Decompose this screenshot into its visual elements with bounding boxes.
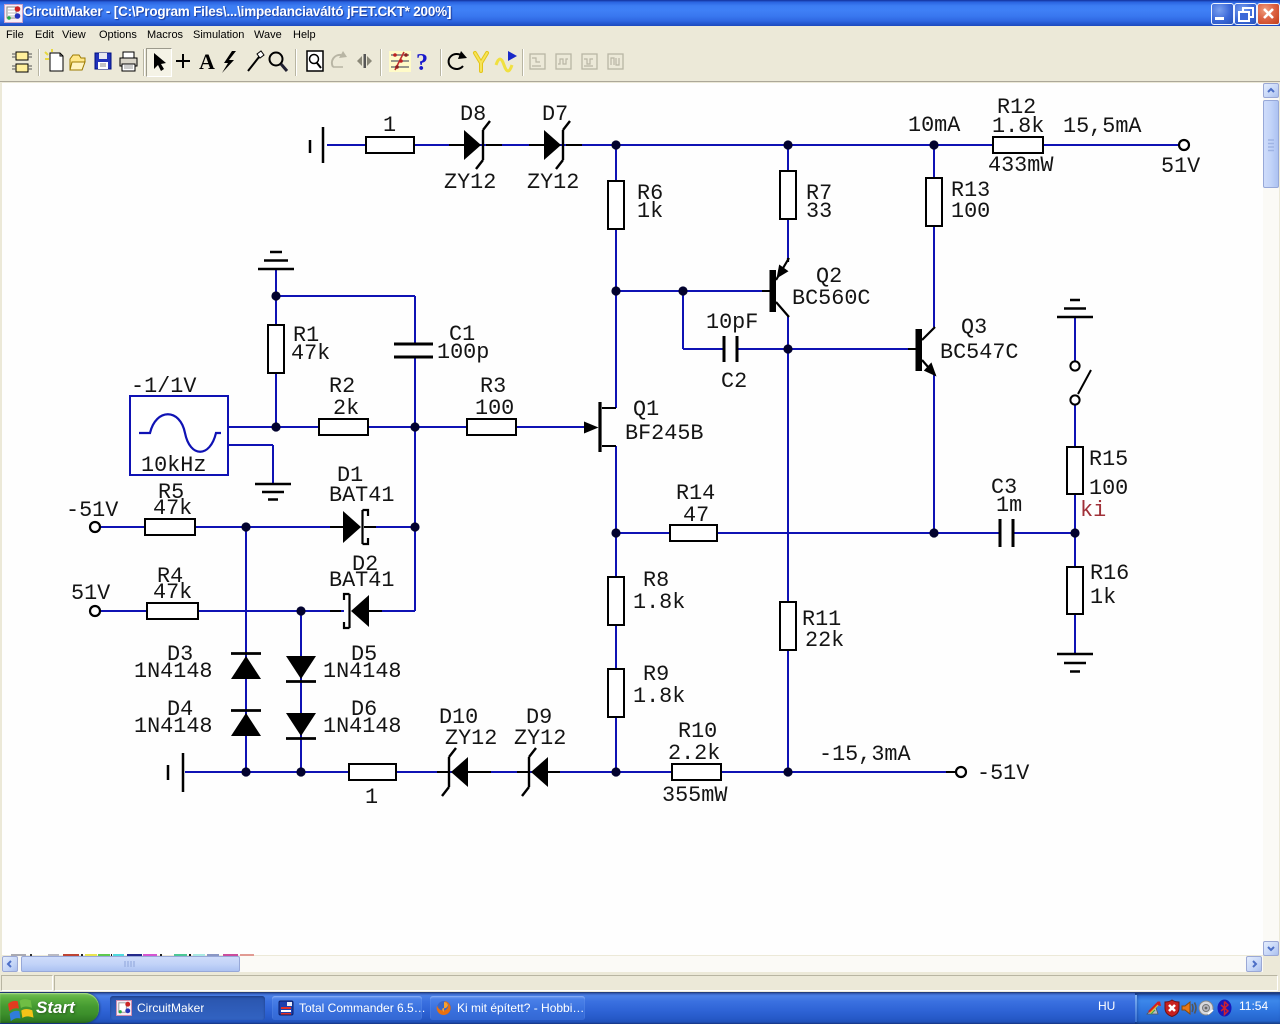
svg-text:-51V: -51V xyxy=(977,761,1029,786)
svg-text:-1/1V: -1/1V xyxy=(131,374,196,399)
svg-text:10pF: 10pF xyxy=(706,310,758,335)
svg-text:1N4148: 1N4148 xyxy=(134,714,212,739)
svg-text:BC547C: BC547C xyxy=(940,340,1018,365)
svg-text:A: A xyxy=(199,49,215,74)
svg-text:47k: 47k xyxy=(153,496,192,521)
svg-text:ZY12: ZY12 xyxy=(514,726,566,751)
svg-text:100: 100 xyxy=(951,199,990,224)
svg-text:D8: D8 xyxy=(460,102,486,127)
svg-text:Q3: Q3 xyxy=(961,315,987,340)
svg-text:BF245B: BF245B xyxy=(625,421,703,446)
svg-text:1k: 1k xyxy=(637,199,663,224)
svg-text:1N4148: 1N4148 xyxy=(134,659,212,684)
svg-text:51V: 51V xyxy=(1161,154,1200,179)
svg-text:1m: 1m xyxy=(996,493,1022,518)
svg-text:10mA: 10mA xyxy=(908,113,961,138)
svg-text:ZY12: ZY12 xyxy=(527,170,579,195)
svg-text:1: 1 xyxy=(365,785,378,810)
svg-text:47: 47 xyxy=(683,503,709,528)
svg-text:BC560C: BC560C xyxy=(792,286,870,311)
svg-text:C2: C2 xyxy=(721,369,747,394)
svg-text:?: ? xyxy=(416,50,428,76)
svg-text:1: 1 xyxy=(383,113,396,138)
svg-text:Q1: Q1 xyxy=(633,397,659,422)
svg-text:47k: 47k xyxy=(291,341,330,366)
svg-text:33: 33 xyxy=(806,199,832,224)
svg-text:1N4148: 1N4148 xyxy=(323,659,401,684)
svg-text:355mW: 355mW xyxy=(662,783,728,808)
svg-text:-51V: -51V xyxy=(66,498,118,523)
svg-text:R16: R16 xyxy=(1090,561,1129,586)
svg-text:1.8k: 1.8k xyxy=(992,114,1044,139)
svg-text:51V: 51V xyxy=(71,581,110,606)
svg-text:ki: ki xyxy=(1080,498,1106,523)
svg-text:R15: R15 xyxy=(1089,447,1128,472)
svg-text:47k: 47k xyxy=(153,580,192,605)
svg-text:2k: 2k xyxy=(333,396,359,421)
svg-text:BAT41: BAT41 xyxy=(329,568,394,593)
svg-text:10kHz: 10kHz xyxy=(141,453,206,478)
svg-text:22k: 22k xyxy=(805,628,844,653)
svg-text:-15,3mA: -15,3mA xyxy=(819,742,911,767)
svg-text:ZY12: ZY12 xyxy=(444,170,496,195)
svg-text:1.8k: 1.8k xyxy=(633,684,685,709)
svg-text:15,5mA: 15,5mA xyxy=(1063,114,1142,139)
svg-text:BAT41: BAT41 xyxy=(329,483,394,508)
svg-text:100p: 100p xyxy=(437,340,489,365)
svg-text:ZY12: ZY12 xyxy=(445,726,497,751)
svg-text:433mW: 433mW xyxy=(988,153,1054,178)
svg-text:2.2k: 2.2k xyxy=(668,741,720,766)
svg-text:D7: D7 xyxy=(542,102,568,127)
svg-text:1.8k: 1.8k xyxy=(633,590,685,615)
svg-text:1N4148: 1N4148 xyxy=(323,714,401,739)
svg-text:100: 100 xyxy=(475,396,514,421)
svg-text:1k: 1k xyxy=(1090,585,1116,610)
